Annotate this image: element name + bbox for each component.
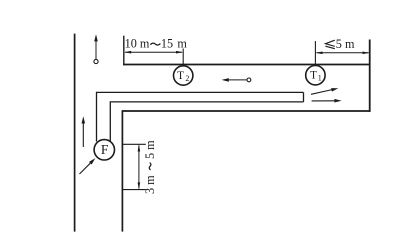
svg-text:10 m: 10 m	[125, 37, 150, 51]
dimension 10m-15m line with arrowheads	[124, 51, 183, 54]
svg-text:T: T	[310, 70, 317, 82]
svg-text:15 m: 15 m	[161, 37, 187, 51]
arrow pointing to fan F	[80, 158, 96, 174]
wire drift bottom wall	[122, 110, 370, 112]
svg-text:2: 2	[185, 74, 189, 83]
wire upper right wall / left extension tick of 10-15m dimension	[123, 36, 125, 66]
return airflow arrow with circle, top left roadway	[94, 34, 98, 63]
air duct top line	[97, 92, 304, 141]
wire lower right roadway wall	[121, 110, 123, 231]
tilde of 10m-15m label	[150, 43, 160, 45]
svg-text:F: F	[101, 142, 109, 157]
svg-text:1: 1	[318, 74, 322, 83]
less-or-equal slanted glyph	[325, 40, 334, 49]
air duct outlet end cap	[303, 92, 305, 102]
airflow horizontal arrow at face	[312, 99, 342, 103]
sensor T1 circle	[306, 66, 325, 85]
airflow diagonal arrow at face	[311, 88, 338, 94]
svg-text:5 m: 5 m	[143, 140, 157, 159]
wire drift face right wall with upper extension tick	[369, 40, 371, 112]
dimension 3m-5m bottom tick	[122, 189, 146, 191]
airflow up arrow in lower roadway	[82, 116, 86, 147]
svg-text:3 m: 3 m	[143, 175, 157, 194]
dimension <=5m left tick through T1	[314, 41, 316, 65]
return airflow left arrow with circle in drift	[222, 78, 251, 82]
fan F circle	[94, 140, 114, 160]
dimension <=5m line with arrowheads	[315, 52, 369, 55]
sensor T2 circle	[174, 66, 193, 85]
dimension 3m-5m top tick	[123, 143, 146, 145]
air duct bottom line	[110, 102, 303, 142]
svg-text:5 m: 5 m	[336, 37, 355, 51]
tilde of 3m-5m label	[149, 163, 151, 170]
wire drift top wall	[123, 64, 370, 66]
dimension 3m-5m vertical line with arrowheads	[138, 144, 141, 189]
wire left roadway wall	[74, 34, 76, 232]
svg-text:T: T	[177, 70, 184, 82]
rotated dimension label 3 m	[143, 140, 157, 194]
dimension 10m-15m right tick through T2	[182, 49, 184, 67]
